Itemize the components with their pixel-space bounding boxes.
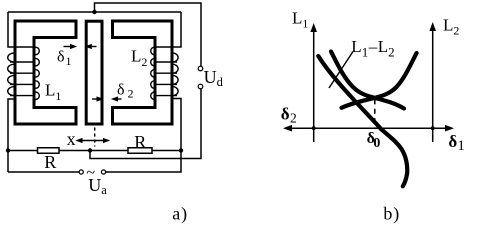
dashed line delta0 bbox=[374, 100, 376, 128]
node dot right rail bbox=[179, 148, 183, 152]
terminal Ua left bbox=[79, 170, 83, 174]
wire Ud bottom branch bbox=[90, 89, 201, 159]
node dot top bbox=[92, 10, 96, 14]
armature plate bbox=[86, 21, 102, 124]
wire Ud top branch bbox=[95, 3, 202, 66]
coil L2 winding bbox=[151, 47, 178, 99]
wire right vertical to L2 top bbox=[155, 12, 182, 47]
svg-text:a): a) bbox=[172, 204, 188, 225]
curve L1-L2 difference bbox=[318, 56, 407, 186]
svg-text:δ: δ bbox=[448, 132, 457, 151]
svg-text:2: 2 bbox=[290, 111, 297, 126]
node dot mid rail bbox=[88, 148, 92, 152]
wire top horizontal node bbox=[8, 11, 181, 13]
core right (C-shape) bbox=[113, 21, 173, 124]
terminal Ua right bbox=[101, 170, 105, 174]
terminal Ud top bbox=[198, 66, 203, 71]
wire left vertical to L1 top bbox=[8, 12, 36, 47]
dimension delta1 arrows bbox=[64, 44, 97, 49]
axis L2 vertical bbox=[432, 29, 434, 142]
svg-text:R: R bbox=[134, 132, 146, 152]
svg-text:δ: δ bbox=[57, 49, 65, 66]
wire Ua bottom rail right bbox=[106, 151, 181, 173]
svg-text:δ: δ bbox=[117, 82, 125, 99]
wire bridge mid rail bbox=[8, 150, 181, 152]
curve L1 bbox=[331, 52, 404, 109]
core left (C-shape) bbox=[15, 21, 76, 124]
svg-text:δ: δ bbox=[281, 105, 290, 124]
svg-text:R: R bbox=[44, 152, 56, 172]
dimension delta2 arrows bbox=[92, 96, 122, 101]
wire L2 bottom down bbox=[173, 99, 182, 151]
svg-text:b): b) bbox=[383, 204, 400, 225]
svg-text:x: x bbox=[67, 129, 76, 149]
coil L1 winding bbox=[8, 47, 40, 99]
axis horizontal delta bbox=[285, 127, 452, 129]
axis node dot right bbox=[431, 126, 435, 130]
dimension x double arrow bbox=[75, 138, 110, 143]
axis node dot left bbox=[312, 126, 316, 130]
axis L1 vertical bbox=[313, 30, 315, 142]
svg-text:1: 1 bbox=[66, 54, 72, 68]
wire Ua bottom rail left bbox=[8, 171, 79, 173]
svg-text:0: 0 bbox=[373, 136, 380, 151]
pointer line to difference curve bbox=[329, 52, 353, 89]
curve L2 bbox=[342, 53, 417, 108]
terminal Ud bottom bbox=[198, 84, 203, 89]
node dot left rail bbox=[6, 148, 10, 152]
armature dashed centerline bbox=[94, 128, 96, 147]
svg-text:1: 1 bbox=[458, 138, 465, 154]
resistor R right bbox=[128, 148, 152, 154]
resistor R left bbox=[38, 148, 60, 154]
wire L1 bottom to bottom rail bbox=[8, 99, 14, 172]
svg-text:2: 2 bbox=[128, 87, 134, 101]
